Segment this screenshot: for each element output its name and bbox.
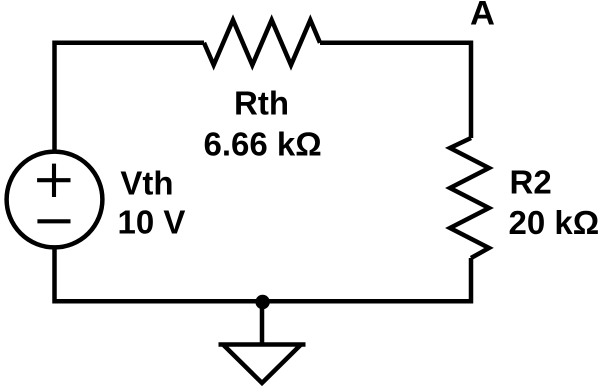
svg-text:20 kΩ: 20 kΩ xyxy=(509,204,600,241)
junction node dot xyxy=(255,295,269,309)
plus symbol of voltage source xyxy=(37,164,70,197)
svg-text:R2: R2 xyxy=(510,164,552,201)
svg-text:6.66 kΩ: 6.66 kΩ xyxy=(204,126,322,163)
ground stub wire xyxy=(260,301,265,344)
wire top-left from voltage source to Rth xyxy=(55,43,205,151)
minus symbol of voltage source xyxy=(37,219,70,223)
svg-text:Vth: Vth xyxy=(120,164,173,201)
svg-text:A: A xyxy=(470,0,495,32)
resistor R2 xyxy=(450,138,489,258)
svg-text:Rth: Rth xyxy=(234,85,289,122)
wire right-bottom from R2 along bottom to voltage source xyxy=(55,248,472,301)
resistor Rth xyxy=(204,20,320,65)
ground symbol xyxy=(219,345,306,384)
svg-text:10 V: 10 V xyxy=(118,204,186,241)
voltage source Vth circle xyxy=(7,152,103,248)
wire top-right from Rth to node A corner xyxy=(320,43,471,138)
